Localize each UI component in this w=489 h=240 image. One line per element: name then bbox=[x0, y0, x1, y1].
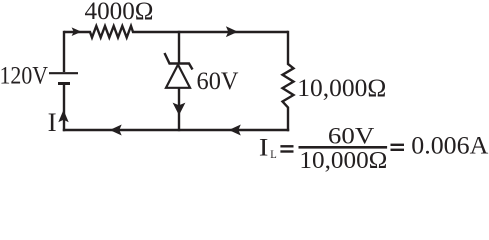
svg-text:10,000Ω: 10,000Ω bbox=[297, 75, 386, 102]
svg-text:0.006A: 0.006A bbox=[411, 132, 488, 159]
svg-text:10,000Ω: 10,000Ω bbox=[299, 147, 387, 174]
svg-text:L: L bbox=[270, 149, 277, 161]
svg-text:60V: 60V bbox=[197, 68, 239, 95]
svg-text:120V: 120V bbox=[0, 63, 48, 90]
svg-text:I: I bbox=[259, 135, 269, 162]
svg-text:60V: 60V bbox=[328, 124, 374, 150]
svg-text:4000Ω: 4000Ω bbox=[85, 0, 154, 25]
svg-text:I: I bbox=[48, 108, 57, 137]
